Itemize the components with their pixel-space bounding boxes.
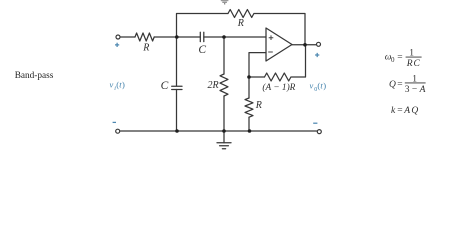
svg-text:3 − A: 3 − A bbox=[405, 85, 426, 95]
svg-text:(A − 1)R: (A − 1)R bbox=[262, 82, 295, 93]
svg-text:=: = bbox=[397, 80, 402, 90]
svg-text:Band-pass: Band-pass bbox=[15, 71, 54, 81]
svg-text:): ) bbox=[323, 81, 326, 91]
svg-text:AQ: AQ bbox=[403, 106, 419, 116]
svg-text:C: C bbox=[198, 44, 206, 56]
svg-text:v: v bbox=[310, 81, 314, 91]
svg-text:=: = bbox=[397, 106, 402, 116]
svg-text:R: R bbox=[142, 42, 149, 53]
svg-text:0: 0 bbox=[391, 56, 395, 64]
svg-text:C: C bbox=[161, 80, 169, 92]
svg-text:2R: 2R bbox=[208, 80, 219, 91]
svg-text:R: R bbox=[255, 100, 262, 111]
svg-text:=: = bbox=[397, 53, 402, 63]
svg-text:RC: RC bbox=[406, 59, 421, 69]
svg-text:R: R bbox=[237, 18, 244, 29]
svg-text:v: v bbox=[110, 80, 114, 90]
svg-text:): ) bbox=[122, 80, 125, 90]
svg-text:Q: Q bbox=[389, 80, 396, 90]
